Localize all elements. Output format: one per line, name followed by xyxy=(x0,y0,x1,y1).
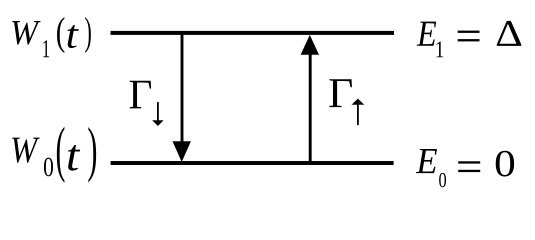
label W0(t) lower left xyxy=(12,127,96,183)
label W1(t) upper left xyxy=(12,17,91,57)
arrowhead: upward transition xyxy=(301,35,319,55)
label E1 = Delta upper right xyxy=(417,21,522,57)
label Gamma-up rate xyxy=(329,79,364,125)
label E0 = 0 lower right xyxy=(416,149,514,187)
wire: downward transition shaft xyxy=(181,33,184,143)
wire: upward transition shaft xyxy=(309,54,312,163)
lower energy level line E0 xyxy=(111,161,394,165)
upper energy level line E1 xyxy=(111,31,395,35)
label Gamma-down rate xyxy=(130,81,164,126)
arrowhead: downward transition xyxy=(173,141,191,162)
